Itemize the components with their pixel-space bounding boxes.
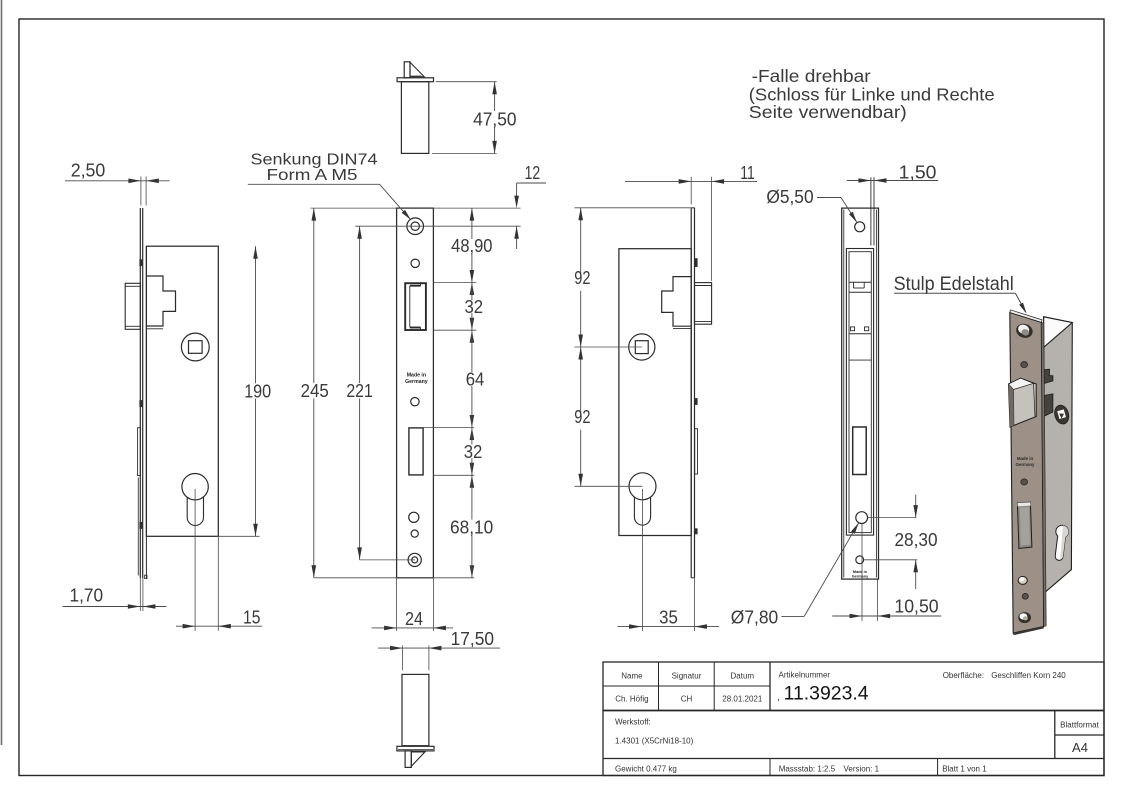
view4 outer plate rectangle	[842, 208, 879, 579]
3d keeper tab lower	[1044, 394, 1053, 417]
dim 32b line	[470, 428, 475, 441]
dim 92 ext nut	[575, 346, 642, 348]
view1 body bottom extension line	[218, 535, 259, 537]
svg-text:,: ,	[777, 692, 780, 703]
view3 screw tick low	[695, 528, 698, 534]
svg-text:Senkung DIN74: Senkung DIN74	[251, 151, 378, 168]
view1 latch stepped profile	[146, 276, 175, 326]
svg-text:Artikelnummer: Artikelnummer	[779, 671, 831, 680]
svg-text:1,50: 1,50	[899, 163, 937, 183]
view2 countersunk screw hole	[407, 218, 424, 235]
svg-text:Signatur: Signatur	[672, 672, 702, 681]
svg-text:32: 32	[464, 442, 483, 462]
3d follower nut boss	[1053, 403, 1071, 425]
svg-text:47,50: 47,50	[473, 110, 516, 130]
svg-text:Version: 1: Version: 1	[844, 764, 880, 773]
view2 screw hole middle	[411, 398, 419, 406]
title row divider 2	[603, 710, 1104, 712]
svg-text:28,30: 28,30	[894, 530, 937, 550]
3d plate bottom bevel	[1013, 627, 1044, 636]
dim 24 line	[372, 627, 454, 629]
svg-text:Germany: Germany	[1015, 462, 1035, 467]
ext line bolt top	[423, 427, 474, 429]
dim 12 figure	[517, 182, 546, 184]
view2 countersunk hole bottom	[408, 553, 421, 566]
view2 screw hole upper	[411, 259, 419, 267]
svg-text:Geschliffen Korn 240: Geschliffen Korn 240	[991, 671, 1066, 680]
svg-text:Form A M5: Form A M5	[267, 167, 358, 184]
dim 2,50 line	[65, 180, 170, 182]
svg-text:Blatt 1 von 1: Blatt 1 von 1	[942, 764, 987, 773]
svg-text:A4: A4	[1072, 740, 1088, 755]
svg-text:Ø5,50: Ø5,50	[766, 187, 813, 207]
svg-text:Oberfläche:: Oberfläche:	[943, 671, 984, 680]
view3 latch keeper box	[695, 283, 712, 325]
ext line plate bottom long	[314, 577, 474, 579]
svg-text:35: 35	[659, 607, 678, 627]
svg-text:12: 12	[525, 163, 541, 183]
view3 lock body rectangle	[619, 249, 691, 536]
svg-text:Germany: Germany	[852, 575, 869, 579]
latch bottom detail flange	[397, 746, 434, 751]
svg-text:Stulp Edelstahl: Stulp Edelstahl	[894, 274, 1014, 295]
title col blattformat	[1054, 711, 1056, 759]
dim 92 upper line	[580, 208, 582, 277]
svg-text:Gewicht 0.477 kg: Gewicht 0.477 kg	[615, 764, 677, 773]
dim 17,50 line	[378, 647, 500, 649]
view3 follower square hole	[635, 341, 648, 354]
svg-text:68,10: 68,10	[450, 517, 493, 537]
view1 faceplate screw ticks	[139, 259, 143, 529]
view1 faceplate edge lines	[139, 208, 141, 578]
dim 10,50 ext lines	[861, 524, 863, 621]
3d plate top bevel	[1010, 310, 1042, 322]
view3 follower nut circle	[629, 334, 655, 360]
latch top detail flange	[397, 78, 433, 82]
view2 faceplate rectangle	[397, 208, 434, 578]
svg-text:92: 92	[574, 268, 590, 288]
dim 11 line	[625, 180, 757, 182]
view1 follower nut circle	[181, 333, 209, 361]
dim 92 ext cylinder	[575, 485, 643, 487]
3d body side face	[1044, 317, 1073, 594]
dim 35 ext line	[694, 578, 696, 631]
view2 hole lower b	[411, 530, 418, 537]
svg-text:1.4301 (X5CrNi18-10): 1.4301 (X5CrNi18-10)	[615, 736, 694, 745]
dim 47,50 line	[494, 82, 496, 111]
dim 28,30 lines	[868, 517, 916, 519]
svg-text:Germany: Germany	[405, 379, 428, 385]
ext line plate top left	[311, 207, 397, 209]
svg-text:Ø7,80: Ø7,80	[731, 607, 778, 627]
view4 hole 7.8	[856, 512, 868, 524]
view3 cylinder centreline	[642, 489, 644, 631]
title row divider 1	[603, 685, 770, 687]
view4 cover edge lines	[870, 177, 872, 245]
view4 inner edge lines	[843, 210, 845, 578]
title col datum-artikel	[769, 662, 771, 711]
dim 221 line	[359, 226, 361, 383]
3d latch bolt	[1009, 378, 1037, 427]
dim 1,70 ext lines	[139, 578, 141, 611]
latch bottom detail body	[402, 674, 429, 745]
view3 latch stepped profile	[662, 277, 692, 327]
title col signatur-datum	[713, 662, 715, 711]
view1 lower lip line	[137, 478, 139, 576]
3d screw hole 2	[1021, 362, 1028, 368]
dim 47,50 ext lines	[436, 81, 497, 83]
dim 10,50 line	[832, 615, 941, 617]
svg-text:-Falle drehbar: -Falle drehbar	[752, 66, 871, 86]
svg-text:Made in: Made in	[407, 372, 426, 378]
ext line bolt bottom	[433, 474, 474, 476]
dim 245 line	[313, 208, 315, 383]
ext line plate top right	[433, 207, 520, 209]
view4 hole 5.5	[855, 222, 865, 232]
3d plate right thickness	[1041, 322, 1046, 626]
ext line hole centre	[355, 225, 520, 227]
dim 92 ext top	[575, 207, 692, 209]
svg-text:17,50: 17,50	[451, 629, 494, 649]
svg-text:10,50: 10,50	[894, 597, 938, 617]
svg-text:1,70: 1,70	[70, 585, 104, 605]
latch top detail body	[401, 82, 428, 154]
dim 48,90 line	[471, 208, 473, 239]
latch top detail hatch	[411, 76, 421, 78]
ext line cutout bottom	[433, 329, 476, 331]
view1 cover plate edge	[145, 246, 147, 578]
dim 11 ext lines	[690, 177, 692, 205]
svg-text:Ch. Höfig: Ch. Höfig	[615, 695, 648, 704]
view2 latch cutout	[405, 283, 426, 330]
dim 32 line	[470, 283, 475, 296]
page scan edge line	[1, 0, 3, 745]
dim 17,50 ext lines	[402, 646, 404, 671]
view3 faceplate edge lines	[690, 208, 692, 578]
view1 lock body rectangle	[146, 246, 218, 536]
title row divider 3	[1055, 734, 1104, 736]
svg-text:64: 64	[466, 370, 485, 390]
view1 bolt lip edge	[138, 428, 141, 476]
svg-text:Made in: Made in	[1017, 456, 1034, 461]
3d screw hole bottom	[1018, 612, 1031, 623]
svg-text:245: 245	[301, 381, 329, 401]
svg-text:24: 24	[405, 609, 423, 629]
dim 35 line	[618, 626, 720, 628]
view4 mechanism detail	[849, 281, 871, 283]
latch bottom detail tip	[405, 751, 411, 768]
dim 15 line	[176, 625, 262, 627]
title col name-signatur	[658, 662, 660, 711]
svg-text:2,50: 2,50	[71, 160, 106, 180]
view2 hole lower a	[409, 512, 419, 522]
svg-text:221: 221	[346, 381, 373, 401]
view1 follower square hole	[189, 341, 203, 354]
3d screw hole top	[1014, 322, 1034, 340]
view3 screw tick mid	[695, 398, 698, 405]
view1 euro cylinder hole	[182, 474, 208, 500]
view3 countersink tick	[695, 258, 698, 267]
view2 bolt cutout	[409, 428, 423, 475]
svg-text:Name: Name	[621, 672, 643, 681]
svg-text:Blattformat: Blattformat	[1060, 720, 1099, 729]
dim 68,10 line	[470, 475, 475, 488]
view1 body right extension below	[217, 536, 219, 630]
svg-text:190: 190	[244, 381, 271, 401]
dim 190 line	[255, 246, 257, 383]
label senkung leader	[248, 183, 380, 185]
dim 24 ext lines	[396, 578, 398, 631]
svg-text:Massstab: 1:2.5: Massstab: 1:2.5	[779, 764, 836, 773]
view3 bolt lip edge	[695, 429, 698, 474]
dim 1,50 line	[847, 180, 938, 182]
view1 latch keeper box	[125, 283, 140, 329]
svg-text:11: 11	[740, 163, 755, 183]
svg-text:Seite verwendbar): Seite verwendbar)	[749, 102, 907, 122]
3d keeper tab upper	[1044, 369, 1053, 383]
view4 cavity inner rect	[849, 252, 871, 533]
view1 cylinder centreline	[194, 489, 196, 631]
svg-text:Datum: Datum	[731, 672, 755, 681]
svg-text:Made in: Made in	[853, 570, 868, 574]
title block outline	[603, 662, 1104, 776]
title col blatt	[937, 759, 939, 776]
title row divider 4	[603, 758, 1104, 760]
svg-text:Werkstoff:: Werkstoff:	[615, 717, 651, 726]
view3 euro cylinder hole	[629, 473, 656, 500]
view4 bolt rectangle	[853, 427, 867, 475]
3d plate front face	[1010, 313, 1044, 634]
svg-text:15: 15	[243, 607, 260, 627]
latch top detail tip	[404, 62, 410, 78]
svg-text:48,90: 48,90	[451, 236, 492, 256]
3d euro keyhole	[1052, 525, 1069, 561]
view4 hole small	[856, 556, 864, 564]
3d body top white face	[1044, 317, 1073, 348]
3d screw hole 4	[1022, 593, 1028, 599]
svg-text:CH: CH	[681, 695, 693, 704]
ext line bottom screw centre	[360, 559, 415, 561]
svg-text:28.01.2021: 28.01.2021	[722, 695, 763, 704]
3d bolt face	[1017, 502, 1032, 548]
svg-text:32: 32	[465, 297, 484, 317]
title col massstab	[769, 759, 771, 776]
3d screw hole 3	[1021, 479, 1028, 485]
dim 92 lower line	[580, 347, 582, 415]
svg-text:92: 92	[574, 407, 590, 427]
svg-text:11.3923.4: 11.3923.4	[784, 683, 869, 704]
ext line cutout top	[433, 282, 476, 284]
dim 64 line	[470, 330, 475, 343]
3d screw hole bevel	[1018, 576, 1027, 584]
view4 cavity outer rect	[846, 249, 873, 536]
dim 1,70 line	[63, 606, 167, 608]
